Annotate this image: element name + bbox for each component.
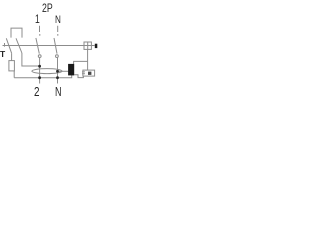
wire stub blade A to resistor box (11, 53, 13, 60)
node junction poleN bottom line (56, 76, 59, 79)
wire electronics to test element (74, 75, 83, 78)
pole N lower conductor (57, 58, 59, 84)
wire blade B down (22, 53, 40, 66)
wire trip coil to test box (87, 49, 89, 70)
linkage handle tick (4, 43, 6, 47)
pole 1 contact pivot circle (38, 55, 41, 58)
terminal 1 dashed lead (39, 26, 41, 36)
test element box (83, 70, 95, 76)
test element inner filled square (88, 72, 91, 75)
label T test button (0, 49, 5, 59)
pole N contact blade (54, 38, 57, 54)
mechanical linkage line (3, 45, 95, 47)
output arrow square (95, 44, 98, 48)
pole 1 lower conductor (39, 58, 41, 84)
label terminal 2 (34, 84, 40, 99)
test element inner dashes (82, 72, 85, 74)
test contact blade A (6, 38, 11, 53)
electronics block (filled) (68, 64, 74, 76)
trip coil box (84, 42, 91, 49)
wire resistor box down (13, 71, 15, 78)
node junction poleN electronics (56, 70, 59, 73)
label terminal N top (55, 14, 61, 26)
label 2P (42, 1, 53, 15)
label terminal N bottom (55, 84, 61, 99)
test contact blade B (16, 38, 22, 53)
wire electronics output (74, 61, 88, 64)
node junction pole1 bottom line (38, 76, 41, 79)
node junction pole1 test line (38, 65, 41, 68)
wire bottom test line (14, 75, 71, 78)
terminal N dashed lead (57, 26, 59, 36)
label terminal 1 (35, 14, 40, 26)
trip coil center line (87, 42, 89, 49)
pole N contact pivot circle (56, 55, 59, 58)
test resistor box (9, 61, 15, 71)
pole 1 contact blade (36, 38, 39, 54)
test button bracket T (11, 28, 22, 37)
wire pole N to electronics (58, 70, 69, 72)
toroid current transformer (32, 69, 62, 74)
